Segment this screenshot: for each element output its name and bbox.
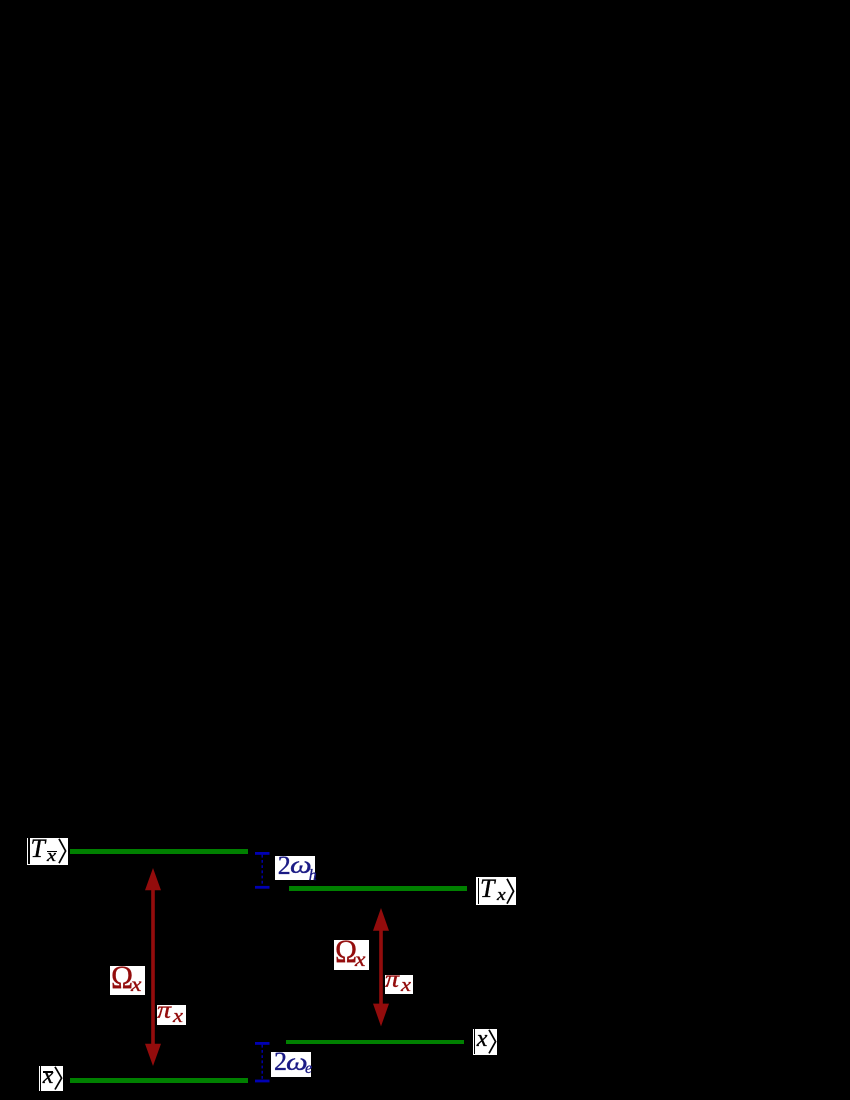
splitting bracket 2omega_h (blue I-beam, dashed) [255, 852, 270, 889]
splitting label 2omega_h (navy) [275, 856, 315, 880]
energy level |xbar> (bottom-left green line) [70, 1078, 248, 1083]
state label |T_xbar> [27, 838, 68, 865]
energy level |T_x> (upper-right green line) [289, 886, 467, 891]
transition arrow Omega_x/pi_x left (double-headed dark red) [145, 868, 161, 1066]
drive label pi_x (left arrow) [157, 1005, 186, 1025]
drive label pi_x (right arrow) [385, 975, 413, 994]
transition arrow Omega_x/pi_x right (double-headed dark red) [373, 908, 389, 1026]
state label |T_x> [476, 877, 516, 905]
drive label Omega_x (left arrow) [110, 966, 146, 995]
splitting label 2omega_e (navy) [271, 1052, 311, 1077]
state label |xbar> [39, 1066, 64, 1091]
drive label Omega_x (right arrow) [334, 940, 369, 970]
splitting bracket 2omega_e (blue I-beam, dashed) [255, 1042, 270, 1082]
energy level |x> (lower-right green line) [286, 1040, 464, 1045]
state label |x> [473, 1029, 497, 1055]
energy level |T_xbar> (top-left green line) [70, 849, 248, 854]
